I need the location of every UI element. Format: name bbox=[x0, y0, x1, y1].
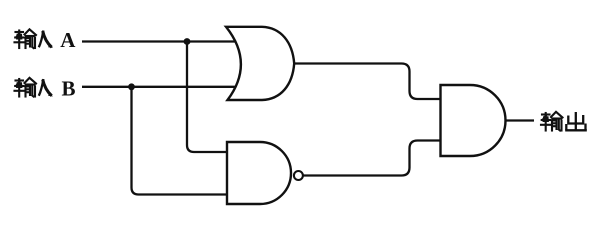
nand-gate U2 inversion bubble bbox=[294, 171, 303, 180]
svg-text:A: A bbox=[60, 28, 76, 52]
nand-gate U2 body bbox=[227, 142, 291, 204]
wire B branch down to NAND bottom input bbox=[132, 87, 231, 195]
label 输入B bbox=[15, 78, 37, 97]
wire AND output bbox=[506, 119, 535, 121]
wire NAND output to AND bottom input bbox=[303, 141, 442, 176]
wire input B bbox=[82, 86, 237, 88]
node A junction bbox=[184, 38, 191, 45]
and-gate U3 bbox=[441, 85, 506, 156]
label 输出 bbox=[541, 112, 563, 131]
wire input A bbox=[82, 40, 237, 42]
node B junction bbox=[128, 83, 135, 90]
or-gate U1 bbox=[226, 27, 294, 100]
wire OR output to AND top input bbox=[292, 64, 442, 100]
svg-text:B: B bbox=[62, 77, 76, 101]
wire A branch down to NAND top input bbox=[187, 42, 230, 153]
label 输入A bbox=[15, 29, 37, 48]
